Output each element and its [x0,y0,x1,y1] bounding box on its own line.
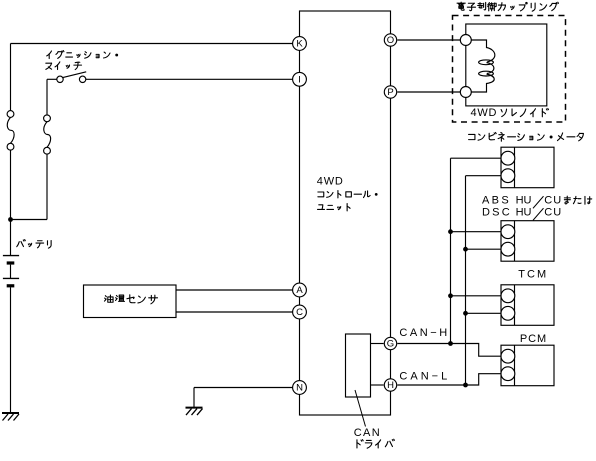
label 油温センサ [104,295,157,304]
wire switch to pin I [86,78,293,80]
svg-text:CAN−H: CAN−H [399,327,447,339]
junction CAN-H ABS [448,229,453,234]
wire fuse2 up to switch [46,79,48,115]
CAN-H bus wire [450,158,452,343]
svg-text:K: K [296,39,303,50]
solenoid coil L [471,40,495,92]
junction CAN-L TCM [463,311,468,316]
wire CAN-H to PCM [397,344,501,357]
svg-text:4WD: 4WD [471,107,497,119]
ground unit [186,408,203,416]
label スイッチ [46,62,82,70]
electronic coupling dashed box [453,16,566,123]
wire CAN driver to pin H [371,384,384,386]
ground battery [2,413,19,421]
wire to switch contact [47,78,57,80]
label イグニッション・ [47,51,118,59]
svg-text:C: C [296,307,303,318]
combination meter box [501,147,554,188]
svg-text:CU: CU [544,207,561,219]
wire branch up to fuse 2 [46,154,48,219]
label ドライバ [357,439,394,448]
label バッテリ [17,240,51,249]
leader line CAN driver [355,390,366,427]
fullwidth slash 2 [533,208,544,220]
junction CAN-H TCM [448,293,453,298]
TCM box [501,285,554,326]
svg-text:DSC: DSC [482,207,510,219]
label または [564,196,591,204]
wire battery feed to pin K [11,43,293,45]
wire down to ground 2 [193,388,195,408]
ABS/DSC HU/CU box [501,221,554,262]
CAN-L bus wire [465,176,467,385]
solenoid terminal bottom [460,87,471,98]
CAN driver box [346,334,371,397]
wire pin P to solenoid [397,91,460,93]
svg-text:HU: HU [516,194,532,206]
wire CAN driver to pin G [371,343,384,345]
ignition switch [57,72,86,83]
svg-text:CU: CU [544,194,561,206]
pin I [293,72,307,86]
4WD control unit box [300,11,391,415]
solenoid terminal top [460,35,471,46]
pin K [293,37,307,51]
junction CAN-L ABS [463,247,468,252]
svg-text:TCM: TCM [518,269,546,281]
svg-text:ABS: ABS [482,194,509,206]
pin O [384,34,396,46]
label コンビネーション・メータ [469,132,584,141]
pin P [384,86,396,98]
label コントロール・ [318,191,378,198]
svg-text:G: G [387,339,394,350]
svg-text:4WD: 4WD [317,175,343,187]
pin N [293,381,307,395]
junction CAN-L bus bottom [463,383,468,388]
junction CAN-H bus bottom [448,341,453,346]
wire down to fuse 1 [10,44,12,111]
wire CAN-H to ABS [451,231,502,233]
pin A [293,283,307,297]
pin C [293,305,307,319]
wire CAN-L to meter [466,175,502,177]
wire sensor to pin A [176,289,293,291]
svg-text:N: N [296,383,303,394]
oil temp sensor box [84,285,177,318]
4WD solenoid box [466,24,547,106]
wire pin N to ground [194,387,293,389]
label ソレノイド (kana) [501,109,548,117]
wire CAN-L to TCM [466,312,502,314]
wire sensor to pin C [176,311,293,313]
fullwidth slash 1 [533,196,544,208]
label ユニット [318,204,351,211]
wire CAN-L to ABS [466,248,502,250]
pin H [384,379,396,391]
svg-text:P: P [387,87,393,98]
wire CAN-H to TCM [451,295,502,297]
wire CAN-H to meter [451,157,502,159]
wire junction to fuse2 branch [11,219,48,221]
pin G [384,337,396,349]
wire CAN-L to PCM [397,374,501,385]
fuse F2 [44,115,51,154]
svg-text:A: A [296,285,303,296]
wire battery to ground [10,287,12,413]
label 電子制御カップリング [457,2,558,11]
svg-text:PCM: PCM [520,333,546,345]
junction node battery feed [8,217,13,222]
svg-text:I: I [298,74,301,85]
svg-text:O: O [387,35,394,46]
battery [3,256,19,288]
svg-text:CAN: CAN [354,427,380,439]
wire pin O to solenoid [397,39,460,41]
fuse F1 [7,111,14,151]
PCM box [501,345,554,386]
svg-text:H: H [387,380,394,391]
svg-text:HU: HU [516,207,532,219]
wire fuse1 to battery [10,150,12,255]
